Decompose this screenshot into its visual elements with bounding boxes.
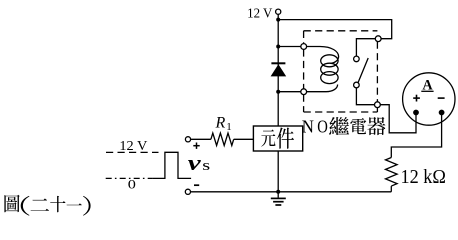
ground symbol bar 2 [273, 201, 284, 203]
resistor R1 zigzag [211, 133, 234, 145]
relay dashed box: bottom edge [304, 111, 378, 113]
terminal: relay switch top (on dashed box) [375, 36, 381, 42]
label: relay text 繼 [329, 117, 349, 135]
waveform: 12V level dashed line [106, 151, 159, 153]
wire: switch top terminal to upper contact [356, 39, 375, 56]
waveform: pulse trace [152, 152, 191, 178]
label: relay text 電 [350, 118, 366, 134]
label: caption 一 [67, 203, 82, 205]
waveform: 0 level dash-dot line [106, 177, 153, 179]
node: diode bottom / coil bottom junction [276, 90, 280, 94]
svg-text:O: O [317, 116, 328, 137]
terminal: relay coil top [301, 44, 307, 50]
relay coil loop 2 [321, 63, 338, 75]
node: diode top / coil top junction [276, 45, 280, 49]
ammeter - sign [438, 97, 445, 99]
wire: bottom rail (ground rail) [191, 191, 392, 193]
terminal: relay coil bottom [301, 89, 307, 95]
label: caption ( [21, 196, 30, 216]
wire: R1 to element box [234, 138, 254, 140]
label: input + sign [193, 145, 199, 147]
switch blade (normally open) [358, 58, 368, 82]
label: caption ) [83, 196, 91, 216]
ammeter A body [403, 73, 455, 125]
diode D (anode triangle) [271, 64, 287, 76]
wire: resistor bottom lead [390, 186, 392, 192]
ground symbol bar 1 [271, 197, 286, 199]
diode D (cathode bar) [271, 62, 285, 64]
wire: top rail from 12V junction to right corner [278, 20, 392, 39]
wire: ammeter - lead down and left to resistor [391, 113, 441, 158]
node: ground junction [276, 190, 280, 194]
relay dashed box: right edge [376, 42, 378, 102]
label: caption 圖 [4, 195, 19, 213]
svg-text:12 V: 12 V [247, 7, 272, 22]
terminal: input + [185, 137, 190, 142]
svg-text:12 kΩ: 12 kΩ [401, 166, 447, 188]
ammeter + sign [413, 97, 420, 99]
wire: element box bottom to ground rail [277, 151, 279, 192]
wire: junction to coil top terminal [278, 46, 301, 48]
wire: 12V stub [277, 14, 279, 20]
label: input - sign [194, 184, 199, 186]
ammeter + terminal dot [413, 110, 419, 116]
terminal: 12V supply [276, 9, 281, 14]
label: element text 元 [261, 130, 275, 147]
relay dashed box: left edge [303, 31, 305, 44]
label: caption 二 [31, 199, 50, 211]
main vertical wire from 12V junction down to element box [277, 20, 279, 126]
ground symbol bar 3 [275, 204, 281, 206]
switch upper contact [354, 56, 360, 62]
svg-text:0: 0 [128, 178, 136, 192]
terminal: input - [185, 189, 190, 194]
label: relay text 器 [367, 117, 385, 135]
relay coil loop 1 [321, 55, 338, 67]
relay coil top lead [307, 47, 339, 64]
ammeter label A underline [421, 90, 433, 92]
relay coil loop 3 [321, 72, 338, 84]
label: element text 件 [277, 127, 294, 148]
relay coil bottom lead [307, 85, 338, 92]
svg-text:R: R [215, 114, 226, 131]
svg-text:N: N [302, 116, 314, 137]
element box (元件) [253, 126, 302, 151]
wire: input + to R1 [191, 138, 211, 140]
node: junction below 12V terminal [276, 18, 280, 22]
switch lower contact [354, 82, 360, 88]
ground symbol stub [277, 192, 279, 198]
svg-text:v: v [188, 150, 202, 175]
terminal: relay switch bottom (on dashed box) [375, 102, 381, 108]
svg-text:12 V: 12 V [119, 138, 147, 153]
wire: junction to coil bottom terminal [278, 91, 301, 93]
relay dashed box: top edge [304, 30, 378, 32]
wire: switch bottom terminal to ammeter + lead [380, 105, 416, 133]
svg-text:1: 1 [226, 121, 232, 133]
svg-text:s: s [202, 157, 210, 173]
wire: lower contact to bottom terminal [356, 88, 374, 105]
label: caption 十 [50, 196, 65, 212]
ammeter - terminal dot [439, 110, 445, 116]
resistor 12k zigzag [386, 158, 398, 187]
